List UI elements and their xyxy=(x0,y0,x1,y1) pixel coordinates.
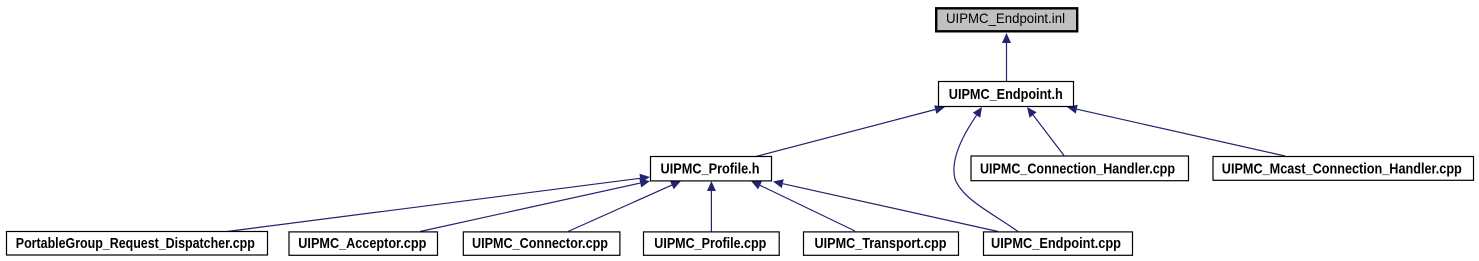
node UIPMC_Endpoint.inl (current file, grey) xyxy=(936,8,1077,31)
svg-text:UIPMC_Endpoint.h: UIPMC_Endpoint.h xyxy=(949,86,1063,103)
node UIPMC_Profile.cpp xyxy=(644,232,780,255)
wire UIPMC_Endpoint.cpp -> UIPMC_Endpoint.h (curved) xyxy=(954,107,1018,232)
wire UIPMC_Acceptor.cpp -> UIPMC_Profile.h xyxy=(420,179,650,232)
svg-text:UIPMC_Profile.cpp: UIPMC_Profile.cpp xyxy=(654,235,766,252)
svg-text:UIPMC_Profile.h: UIPMC_Profile.h xyxy=(661,161,760,178)
svg-text:UIPMC_Acceptor.cpp: UIPMC_Acceptor.cpp xyxy=(298,235,426,252)
wire UIPMC_Connector.cpp -> UIPMC_Profile.h xyxy=(568,181,681,232)
wire UIPMC_Profile.h -> UIPMC_Endpoint.h xyxy=(754,105,945,157)
svg-text:UIPMC_Endpoint.cpp: UIPMC_Endpoint.cpp xyxy=(991,235,1121,252)
svg-text:UIPMC_Connection_Handler.cpp: UIPMC_Connection_Handler.cpp xyxy=(980,160,1175,177)
node UIPMC_Endpoint.h xyxy=(939,82,1074,107)
svg-text:UIPMC_Connector.cpp: UIPMC_Connector.cpp xyxy=(472,235,608,252)
node UIPMC_Acceptor.cpp xyxy=(289,232,438,255)
wire UIPMC_Endpoint.h -> UIPMC_Endpoint.inl xyxy=(1002,33,1011,81)
wire PortableGroup_Request_Dispatcher.cpp -> UIPMC_Profile.h xyxy=(227,174,650,232)
wire UIPMC_Connection_Handler.cpp -> UIPMC_Endpoint.h xyxy=(1027,107,1064,156)
wire UIPMC_Transport.cpp -> UIPMC_Profile.h xyxy=(751,181,855,231)
node UIPMC_Connector.cpp xyxy=(463,232,620,255)
wire UIPMC_Profile.cpp -> UIPMC_Profile.h xyxy=(707,181,716,232)
node UIPMC_Connection_Handler.cpp xyxy=(971,156,1189,181)
svg-text:UIPMC_Endpoint.inl: UIPMC_Endpoint.inl xyxy=(946,10,1065,26)
svg-text:PortableGroup_Request_Dispatch: PortableGroup_Request_Dispatcher.cpp xyxy=(16,235,255,252)
node UIPMC_Mcast_Connection_Handler.cpp xyxy=(1213,157,1474,181)
node UIPMC_Endpoint.cpp xyxy=(984,232,1133,255)
node UIPMC_Profile.h xyxy=(651,157,772,181)
svg-text:UIPMC_Transport.cpp: UIPMC_Transport.cpp xyxy=(815,235,947,252)
svg-text:UIPMC_Mcast_Connection_Handler: UIPMC_Mcast_Connection_Handler.cpp xyxy=(1222,160,1462,177)
wire UIPMC_Endpoint.cpp -> UIPMC_Profile.h xyxy=(773,179,998,231)
node UIPMC_Transport.cpp xyxy=(804,232,959,255)
node PortableGroup_Request_Dispatcher.cpp xyxy=(7,232,268,256)
wire UIPMC_Mcast_Connection_Handler.cpp -> UIPMC_Endpoint.h xyxy=(1067,105,1285,156)
